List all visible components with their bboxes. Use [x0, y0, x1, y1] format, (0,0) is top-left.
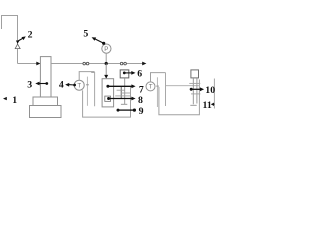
electrode E2 body (square 10)	[191, 70, 199, 78]
fitting F1 on pipe	[83, 62, 89, 65]
label 7	[106, 85, 109, 88]
wire: feed pipe to column	[18, 63, 38, 65]
stand: base block	[30, 106, 62, 118]
svg-text:10: 10	[205, 85, 215, 96]
svg-text:4: 4	[59, 79, 64, 90]
svg-text:8: 8	[138, 95, 143, 106]
svg-text:7: 7	[139, 85, 144, 96]
check valve on feed line	[15, 44, 20, 49]
wire: feed inverted-U tube from reservoir	[2, 16, 18, 64]
inner cell vessel	[102, 79, 114, 107]
label 8	[107, 97, 110, 100]
label 10	[190, 88, 193, 91]
junction node on pipe	[105, 62, 108, 65]
cell jacket left wall	[91, 73, 94, 107]
probe rod beside T2	[156, 77, 158, 107]
svg-text:6: 6	[137, 69, 142, 80]
stand: middle block	[33, 97, 58, 106]
label 11	[213, 103, 214, 105]
electrode E1 frit rungs	[117, 89, 125, 91]
wire: T2 over-rim tube	[151, 73, 166, 82]
label 5	[102, 42, 105, 45]
svg-text:2: 2	[28, 29, 33, 40]
wire: drop line from junction into cell	[105, 64, 107, 76]
thermometer T1	[74, 80, 84, 90]
arrowhead at pipe end	[142, 62, 146, 66]
arrowhead into cell	[104, 75, 108, 79]
column C1	[40, 57, 51, 97]
svg-text:P: P	[104, 46, 108, 53]
arrowhead into column	[36, 62, 40, 66]
label 3	[45, 82, 48, 85]
label 1	[3, 97, 7, 100]
stir bar in cell	[105, 96, 111, 101]
electrode E1 foot	[121, 103, 127, 105]
outer wall right	[213, 79, 215, 109]
label 2	[16, 41, 20, 44]
probe rod beside T1	[86, 77, 88, 106]
wire: T1 over-rim tube	[79, 72, 94, 81]
svg-text:9: 9	[139, 106, 144, 117]
electrode E2 stem	[192, 78, 194, 104]
label 9	[117, 109, 120, 112]
electrode E1 stem	[120, 86, 122, 98]
label 6	[123, 72, 126, 75]
thermostat tank (left)	[83, 87, 131, 118]
label 4	[73, 84, 76, 87]
svg-text:1: 1	[12, 95, 17, 106]
thermometer T2	[146, 82, 155, 91]
fitting F2 on pipe	[120, 62, 126, 65]
svg-text:5: 5	[83, 28, 88, 39]
bath vessel (right)	[165, 73, 167, 106]
svg-text:3: 3	[27, 79, 32, 90]
electrode E2 foot	[190, 104, 196, 106]
svg-text:T: T	[77, 83, 81, 90]
pump P	[102, 44, 111, 53]
wire: pump stem to pipe	[105, 53, 107, 63]
electrode E1 body (square 6)	[120, 70, 129, 78]
svg-text:T: T	[149, 84, 153, 91]
svg-text:11: 11	[203, 100, 212, 111]
electrode E2 frit rungs	[189, 82, 200, 84]
wire: outlet pipe from column to end arrow	[51, 63, 143, 65]
